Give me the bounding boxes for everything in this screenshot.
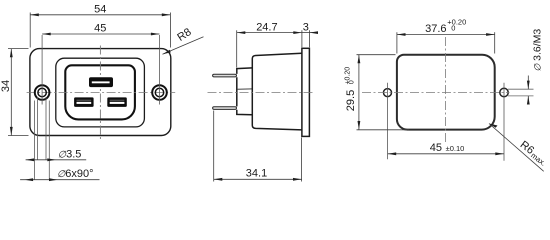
flange [302, 48, 310, 136]
svg-text:34.1: 34.1 [246, 168, 267, 180]
dimension dia 3.5 [26, 159, 87, 161]
line contact slot (bottom left) [74, 97, 94, 107]
right fixing hole [500, 88, 508, 96]
dimension 45 [42, 33, 159, 35]
hole centerline right / 45-dim extension [159, 35, 161, 105]
horizontal centerline [362, 92, 510, 94]
svg-text:45: 45 [430, 142, 442, 154]
dimension 29.5 [357, 55, 410, 130]
horizontal centerline [27, 92, 176, 94]
svg-text:34: 34 [0, 80, 12, 92]
main body [252, 53, 302, 130]
cutout outline [397, 55, 495, 130]
svg-text:∅3.5: ∅3.5 [58, 149, 82, 161]
leader R6 max [489, 124, 544, 172]
dimension 34 (left) [8, 49, 29, 136]
dia 3.6/M3 hole edge extensions [508, 89, 534, 96]
right hole centerline / extension [503, 83, 505, 161]
dimension 45 +-0.10 [388, 153, 504, 155]
svg-text:24.7: 24.7 [256, 21, 277, 33]
countersink extension lines [34, 97, 49, 180]
earth contact slot (top) [89, 77, 113, 87]
left mounting hole [35, 85, 50, 100]
vertical centerline [445, 37, 447, 144]
dimension dia 6x90 [20, 179, 99, 181]
svg-text:∅ 3.6/M3: ∅ 3.6/M3 [532, 29, 544, 72]
leader R8 [163, 37, 204, 55]
top pin [213, 74, 237, 77]
dimension 34.1 [214, 111, 302, 182]
centerline [208, 92, 314, 94]
bottom pin [213, 107, 237, 110]
svg-text:3: 3 [303, 21, 309, 33]
svg-text:0: 0 [451, 23, 455, 32]
dimension 24.7 [237, 30, 302, 67]
dimension dia 3.6/M3 [527, 76, 529, 90]
dimension 37.6 [397, 32, 495, 53]
dimension 54 [30, 13, 170, 48]
svg-text:37.6: 37.6 [425, 23, 446, 35]
svg-text:∅6x90°: ∅6x90° [57, 168, 94, 180]
svg-text:54: 54 [94, 4, 106, 16]
neutral contact slot (bottom right) [107, 97, 127, 107]
dimension 3 [302, 30, 318, 47]
recess chamfer edge [238, 88, 253, 90]
connector face inner recess outline [65, 65, 135, 119]
hole centerline left / 45-dim extension [41, 35, 43, 105]
svg-text:±0.10: ±0.10 [446, 144, 465, 153]
svg-text:+0.20: +0.20 [447, 17, 466, 26]
svg-text:45: 45 [94, 23, 106, 35]
right mounting hole [152, 85, 167, 100]
vertical centerline [99, 46, 101, 142]
left fixing hole [384, 89, 392, 97]
svg-text:29.5: 29.5 [345, 90, 357, 111]
connector face outer outline [56, 58, 145, 127]
connector body flange outline [30, 49, 171, 136]
mating block [237, 68, 252, 115]
left hole centerline / extension [387, 83, 389, 160]
svg-text:0: 0 [348, 80, 355, 84]
